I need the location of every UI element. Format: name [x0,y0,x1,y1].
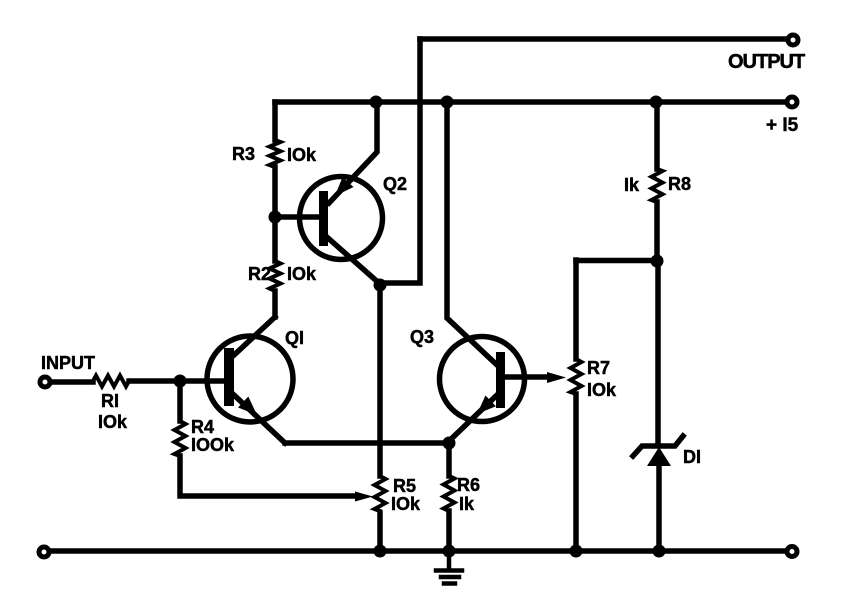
wire: input to R1 [51,379,93,385]
diode D1 anode triangle [647,447,671,466]
svg-text:R4: R4 [191,417,214,437]
svg-text:IOk: IOk [98,412,128,432]
svg-text:R3: R3 [232,144,255,164]
transistor Q2 emitter diagonal to +15 [329,102,377,203]
wire: R3 to R2 [272,167,278,261]
wire: R2 to Q1 collector [272,291,278,317]
wire: +15 supply rail [275,99,785,105]
transistor Q3 circle [440,337,525,422]
resistor R7 10k (vertical) [571,359,582,394]
wire: R7 to bottom rail [573,394,579,551]
node: Q2 collector / output / R5 junction [374,279,387,292]
transistor Q1 circle [207,336,293,422]
svg-text:R5: R5 [393,476,416,496]
resistor R6 1k (vertical) [444,476,455,511]
node: R8 / R7 / D1 junction [651,255,664,268]
wire: D1 to bottom rail [656,465,662,551]
node: R6 on bottom rail [443,545,456,558]
svg-text:R2: R2 [248,264,271,284]
svg-text:Ik: Ik [624,175,640,195]
wire: R4 top lead [177,381,183,421]
wire: OUTPUT line horizontal [420,36,786,42]
svg-text:IOk: IOk [391,494,421,514]
wire: bottom ground rail [52,548,786,554]
wire: node to R6 [446,443,452,476]
arrow: Q1 emitter (NPN, pointing out) [238,397,257,416]
transistor Q3 emitter diagonal [447,395,497,443]
resistor R3 10k (vertical) [270,140,281,167]
svg-text:RI: RI [101,391,119,411]
svg-text:R6: R6 [457,475,480,495]
resistor R5 10k (vertical) [375,476,386,511]
svg-text:IOk: IOk [287,264,317,284]
terminal: OUTPUT [788,35,798,45]
terminal: bottom left [39,547,49,557]
svg-text:DI: DI [683,447,701,467]
node: Q1 base / R4 junction [174,375,187,388]
svg-text:IOk: IOk [287,145,317,165]
transistor Q1 emitter diagonal [234,395,285,443]
arrow: wiper into R7 [547,372,566,383]
terminal: +15 [787,97,797,107]
transistor Q2 collector diagonal [328,238,380,284]
svg-text:R8: R8 [668,174,691,194]
wire: R8 bottom to junction [654,202,660,261]
transistor Q1 collector diagonal [233,317,275,356]
transistor Q1 base bar [224,348,234,406]
arrow: wiper into R5 [355,492,373,502]
svg-text:+ I5: + I5 [766,115,799,136]
svg-text:Ik: Ik [459,494,475,514]
node: Q2 base junction [269,211,282,224]
transistor Q3 collector diagonal [447,102,497,365]
svg-text:IOOk: IOOk [191,435,235,455]
resistor R4 100k (vertical) [175,421,186,456]
wire: R7 top to R8 junction [576,258,657,264]
svg-text:IOk: IOk [587,380,617,400]
node: D1 on bottom rail [653,545,666,558]
wire: junction down to D1 [655,261,661,444]
wire: OUTPUT vertical drop to Q2 collector node [381,39,420,283]
resistor R8 1k (vertical) [652,169,663,202]
diode D1 zener cathode bar [633,436,683,456]
wire: Q2 base wire [275,214,319,220]
svg-text:INPUT: INPUT [41,353,95,373]
arrow: Q3 emitter (pointing out, down-left) [477,396,496,415]
transistor Q2 circle [300,177,383,260]
wire: R1 to Q1 base node [129,378,226,384]
terminal: INPUT [40,377,50,387]
svg-text:QI: QI [285,328,304,348]
svg-text:Q2: Q2 [383,174,407,194]
wire: node down to R5 [377,284,383,476]
resistor R1 10k (horizontal) [93,376,129,387]
wire: R7 upper lead [573,260,579,359]
transistor Q3 base wire to R7 [505,374,550,380]
node: R8 top on +15 rail [650,96,663,109]
svg-text:Q3: Q3 [410,327,434,347]
node: R7 on bottom rail [570,545,583,558]
ground symbol [436,551,462,584]
transistor Q3 base bar [496,352,505,408]
terminal: bottom right [787,547,797,557]
node: Q3 collector on +15 rail [441,96,454,109]
node: Q2 emitter on +15 rail [370,96,383,109]
resistor R2 10k (vertical) [270,261,281,291]
wire: left column from +15 rail to R3 [272,102,278,140]
node: R5 on bottom rail [374,545,387,558]
wire: R5 to bottom rail [377,513,383,551]
wire: R6 to bottom rail [446,511,452,551]
wire: R8 top lead [654,102,660,169]
node: common emitter / R6 junction [443,437,456,450]
svg-text:R7: R7 [587,358,610,378]
wire: Q1 emitter to common node [285,440,449,446]
arrow: Q2 emitter (PNP, pointing in) [335,177,354,196]
transistor Q2 base bar [319,191,328,246]
svg-text:OUTPUT: OUTPUT [728,51,805,73]
wire: R4 bottom to R5 wiper arrow [180,456,356,496]
